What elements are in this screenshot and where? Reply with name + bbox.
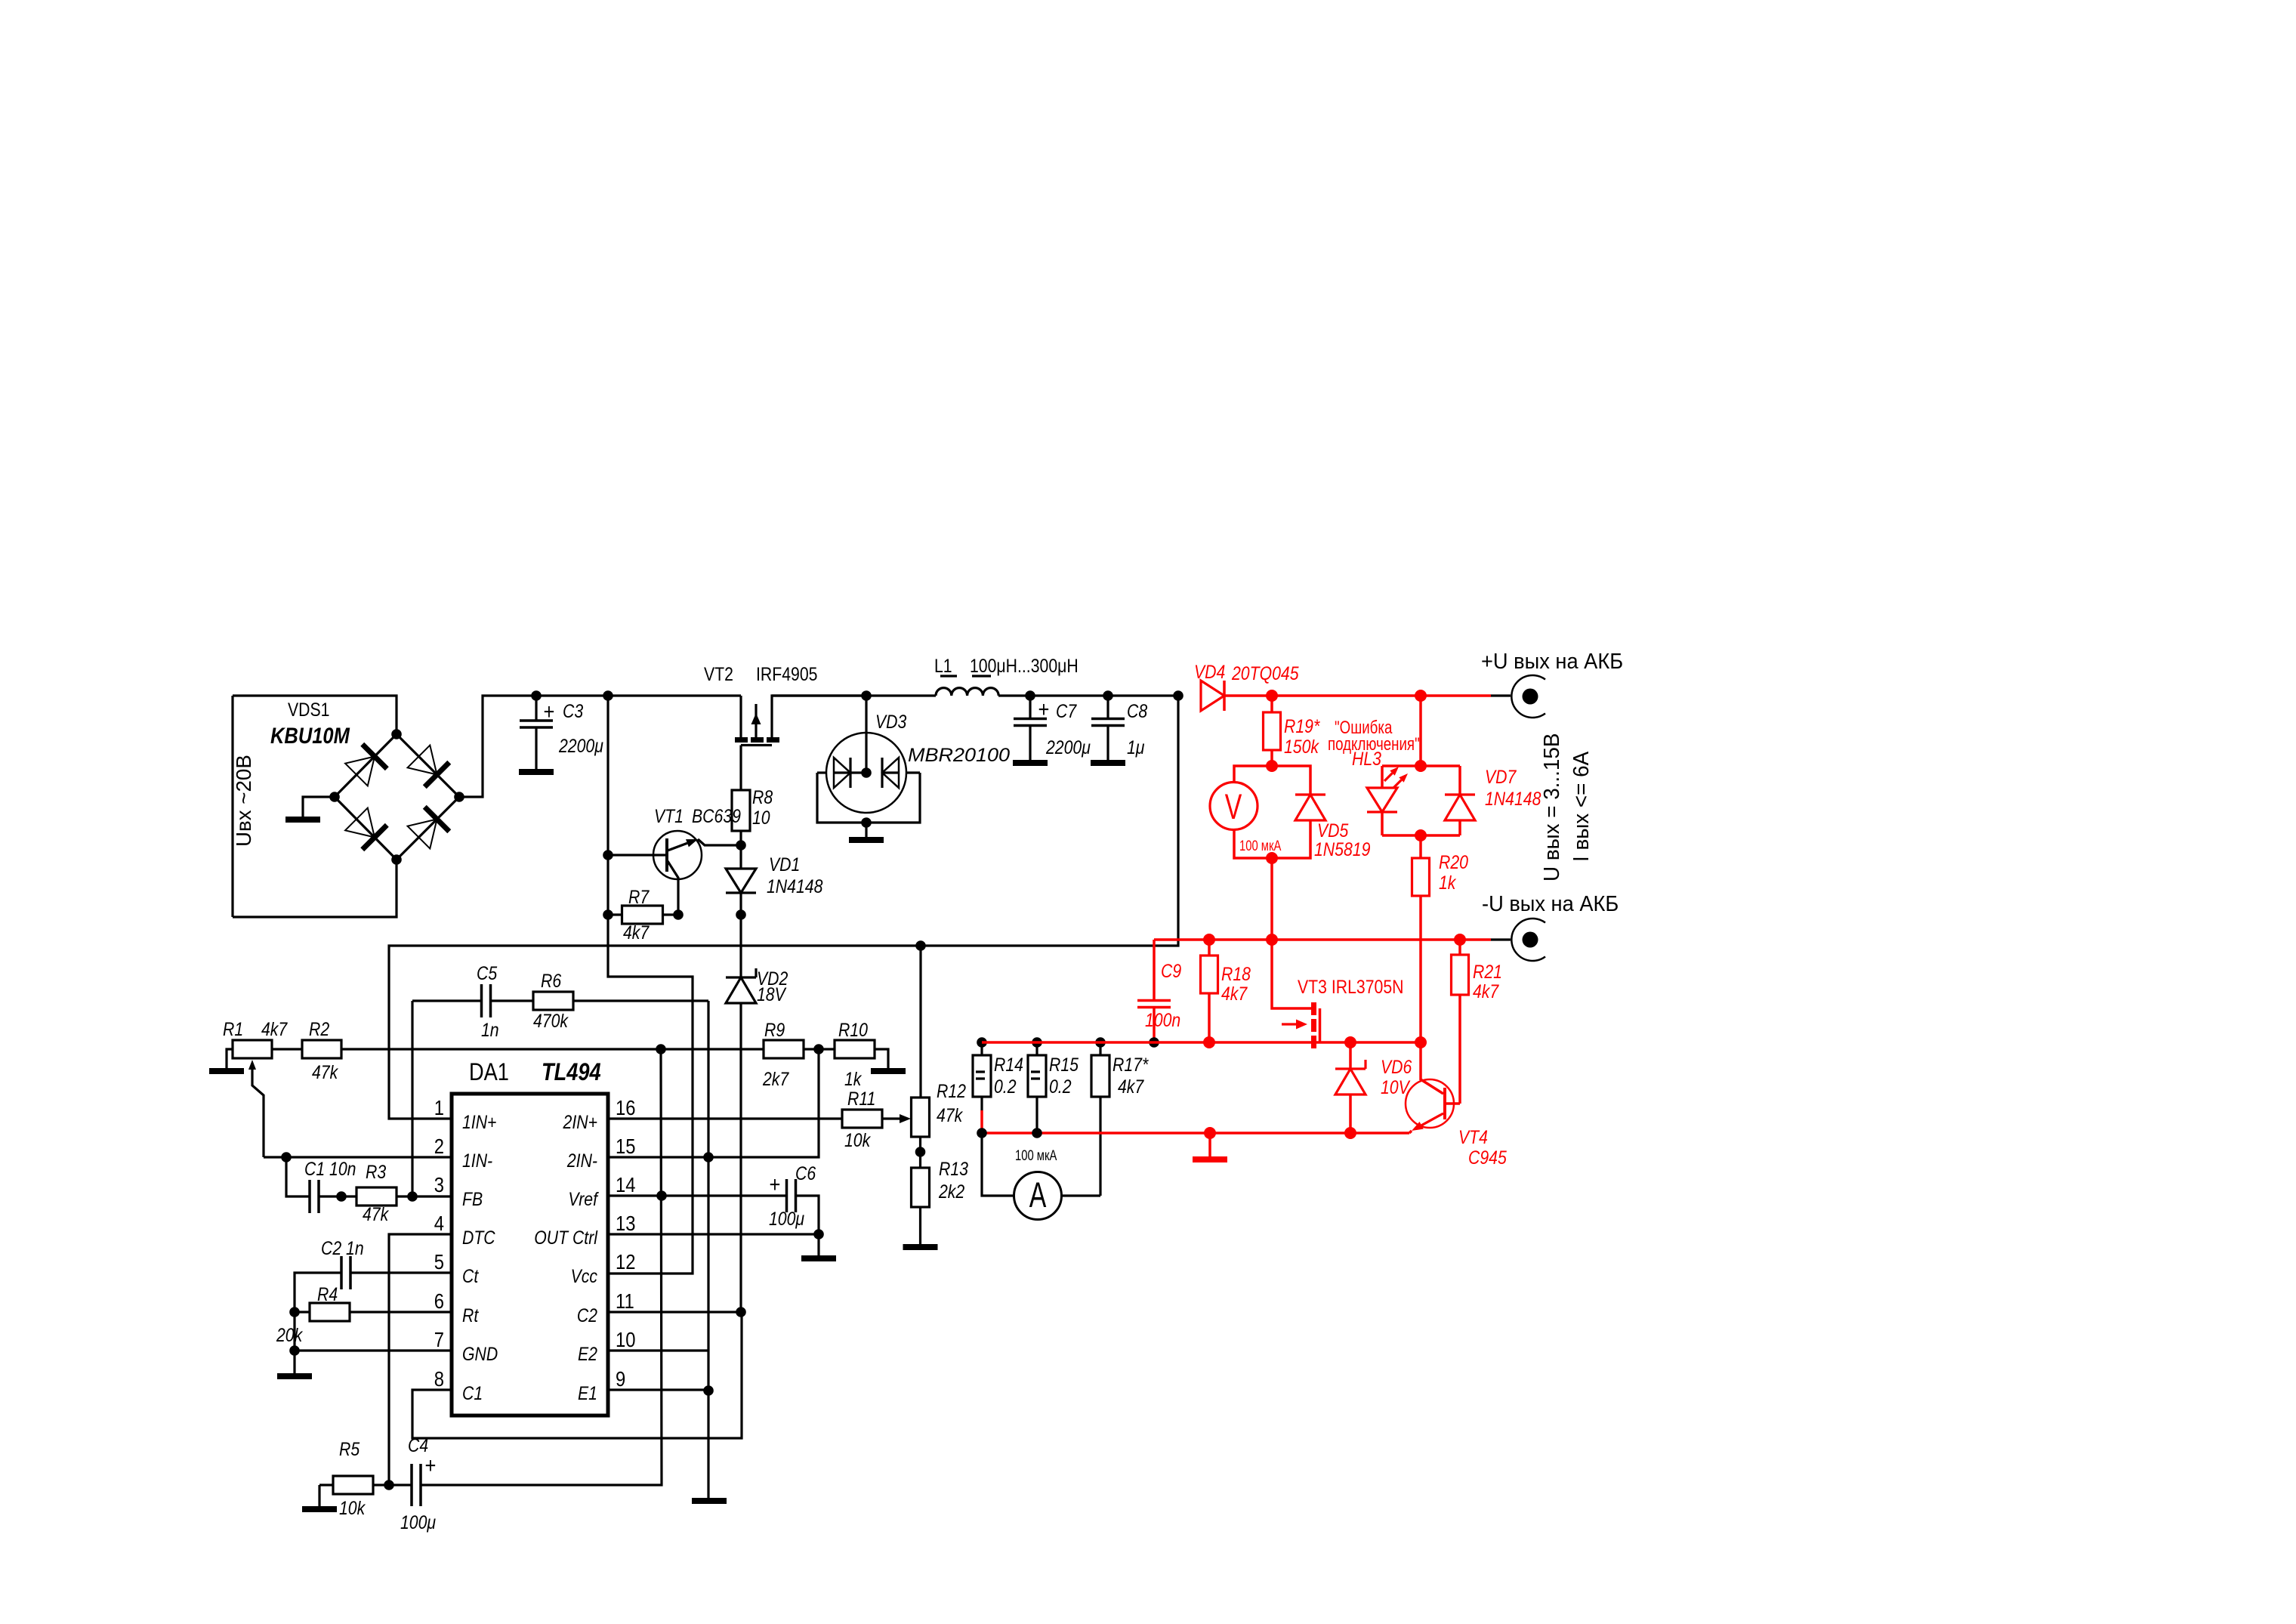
voltmeter V xyxy=(1234,766,1272,783)
label VD6 xyxy=(1381,1056,1412,1077)
label C1 10n xyxy=(304,1158,356,1179)
svg-text:4k7: 4k7 xyxy=(1118,1076,1144,1097)
svg-text:47k: 47k xyxy=(937,1104,964,1125)
transistor VT1 BC639 xyxy=(653,831,702,879)
ground R1 xyxy=(209,1068,244,1074)
svg-text:2k7: 2k7 xyxy=(762,1068,789,1089)
label R21 xyxy=(1473,961,1502,982)
label R9 xyxy=(764,1019,785,1040)
svg-text:KBU10M: KBU10M xyxy=(270,723,350,748)
svg-text:IRF4905: IRF4905 xyxy=(756,663,817,684)
label R8 value 10 xyxy=(752,807,770,828)
wire C2R4 to GND pin xyxy=(293,1312,295,1373)
svg-text:R7: R7 xyxy=(628,886,650,907)
svg-text:16: 16 xyxy=(616,1095,635,1119)
label R7 value 4k7 xyxy=(623,922,650,943)
wire raw supply to Vcc xyxy=(608,696,693,1274)
wire pin13 row xyxy=(608,1234,819,1255)
label C8 value 1μ xyxy=(1127,736,1145,758)
svg-text:E1: E1 xyxy=(578,1382,597,1403)
wire DTC to C4 xyxy=(389,1234,452,1485)
label R4 value 20k xyxy=(276,1324,303,1345)
label R15 xyxy=(1049,1054,1079,1075)
label C4 xyxy=(408,1434,428,1456)
label VD4 value 20TQ045 xyxy=(1231,662,1299,684)
svg-text:R5: R5 xyxy=(339,1438,360,1459)
bridge rectifier VDS1 KBU10M xyxy=(335,734,459,860)
svg-text:R10: R10 xyxy=(838,1019,868,1040)
svg-text:4k7: 4k7 xyxy=(623,922,650,943)
svg-text:2IN-: 2IN- xyxy=(566,1150,597,1171)
svg-text:100n: 100n xyxy=(1145,1009,1180,1030)
svg-text:6: 6 xyxy=(434,1289,444,1313)
svg-text:Rt: Rt xyxy=(462,1304,480,1326)
svg-text:FB: FB xyxy=(462,1188,483,1209)
svg-text:+: + xyxy=(425,1453,437,1477)
capacitor C9 xyxy=(1153,940,1156,1001)
svg-text:47k: 47k xyxy=(363,1203,390,1224)
resistor R15 xyxy=(1035,1042,1038,1055)
svg-text:V: V xyxy=(1225,787,1242,827)
svg-text:1k: 1k xyxy=(844,1068,863,1089)
svg-text:C1 10n: C1 10n xyxy=(304,1158,356,1179)
svg-text:VT3 IRL3705N: VT3 IRL3705N xyxy=(1298,976,1403,997)
svg-text:C3: C3 xyxy=(563,700,583,721)
wire pin9 E1 row xyxy=(608,1388,708,1391)
svg-text:C2: C2 xyxy=(577,1304,597,1326)
label C4 value 100μ xyxy=(400,1511,436,1533)
label C5 value 1n xyxy=(481,1019,499,1040)
svg-text:13: 13 xyxy=(616,1211,635,1235)
svg-text:R12: R12 xyxy=(937,1080,966,1101)
wire pin11 C2 row xyxy=(608,1311,742,1313)
label U вых = 3...15В (rotated) xyxy=(1539,733,1564,881)
label VT4 xyxy=(1458,1126,1488,1147)
svg-text:2200μ: 2200μ xyxy=(1045,736,1091,758)
svg-text:3: 3 xyxy=(434,1172,444,1196)
svg-text:1IN+: 1IN+ xyxy=(462,1111,496,1132)
wire pin15 row xyxy=(608,1049,819,1157)
ground R13 xyxy=(903,1244,938,1250)
svg-text:150k: 150k xyxy=(1284,736,1319,757)
label BC639 xyxy=(692,805,741,826)
IC DA1 TL494 box xyxy=(452,1094,608,1416)
svg-text:VT1: VT1 xyxy=(654,805,684,826)
capacitor C6 xyxy=(787,1179,796,1212)
svg-text:100μ: 100μ xyxy=(769,1208,804,1229)
resistor R4 xyxy=(295,1311,310,1313)
resistor R10 xyxy=(835,1040,875,1058)
label R6 xyxy=(541,970,561,991)
wire pin2 row xyxy=(264,1156,452,1158)
svg-text:2IN+: 2IN+ xyxy=(563,1111,597,1132)
label R7 xyxy=(628,886,650,907)
label ammeter 100 мкА xyxy=(1015,1147,1057,1163)
label C2 1n xyxy=(321,1237,364,1258)
label R17* xyxy=(1113,1054,1149,1075)
resistor R19 xyxy=(1270,696,1273,712)
svg-text:1n: 1n xyxy=(481,1019,499,1040)
svg-text:15: 15 xyxy=(616,1134,635,1158)
resistor R11 xyxy=(608,1117,842,1119)
wire bottom AC rail xyxy=(233,860,397,917)
label R13 xyxy=(939,1158,968,1179)
label R3 value 47k xyxy=(363,1203,390,1224)
svg-text:1k: 1k xyxy=(1439,872,1457,893)
svg-text:4: 4 xyxy=(434,1211,444,1235)
potentiometer R12 xyxy=(919,946,921,1098)
svg-text:100μH...300μH: 100μH...300μH xyxy=(970,655,1079,676)
label DA1 xyxy=(469,1059,509,1086)
label C3 value 2200μ xyxy=(558,735,603,756)
label C7 value 2200μ xyxy=(1045,736,1091,758)
svg-text:U вых = 3...15В: U вых = 3...15В xyxy=(1539,733,1564,881)
wire bridge plus to rail xyxy=(459,696,741,797)
svg-text:0.2: 0.2 xyxy=(1049,1076,1072,1097)
label VT3 IRL3705N xyxy=(1298,976,1403,997)
svg-text:100 мкА: 100 мкА xyxy=(1239,838,1282,854)
ground R10 xyxy=(871,1068,906,1074)
label VD4 xyxy=(1194,661,1225,682)
resistor R18 xyxy=(1208,940,1211,956)
svg-text:VD6: VD6 xyxy=(1381,1056,1412,1077)
label IRF4905 xyxy=(756,663,817,684)
label VD5 xyxy=(1317,820,1348,841)
label VD1 xyxy=(769,854,800,875)
wire feedback bus xyxy=(389,696,1178,1119)
label VD2 value 18V xyxy=(757,983,787,1005)
wire pin8 C1 to outputs E xyxy=(412,1312,742,1438)
diode VD3 MBR20100 xyxy=(865,696,867,773)
svg-text:R6: R6 xyxy=(541,970,561,991)
label C6 + xyxy=(770,1172,781,1196)
label R9 value 2k7 xyxy=(762,1068,789,1089)
label R18 xyxy=(1221,963,1251,984)
svg-text:Ct: Ct xyxy=(462,1265,480,1286)
ground GND pin7 xyxy=(277,1373,312,1379)
wire Vref to R2 node and C4 xyxy=(421,1049,662,1485)
svg-text:C6: C6 xyxy=(795,1162,816,1184)
label R4 xyxy=(317,1283,338,1304)
label VD1 value 1N4148 xyxy=(767,875,822,897)
capacitor C2 xyxy=(350,1271,452,1274)
capacitor C5 xyxy=(412,999,483,1002)
svg-text:VD5: VD5 xyxy=(1317,820,1348,841)
ground R5 xyxy=(302,1506,337,1512)
label C8 xyxy=(1127,700,1147,721)
svg-text:4k7: 4k7 xyxy=(1221,983,1248,1004)
svg-text:20TQ045: 20TQ045 xyxy=(1231,662,1299,684)
label VD7 xyxy=(1485,766,1517,787)
potentiometer R1 xyxy=(233,1040,272,1058)
svg-text:C8: C8 xyxy=(1127,700,1147,721)
capacitor C1 xyxy=(286,1157,310,1196)
svg-text:R4: R4 xyxy=(317,1283,338,1304)
svg-text:VDS1: VDS1 xyxy=(288,699,329,720)
svg-text:VD7: VD7 xyxy=(1485,766,1517,787)
svg-text:Vcc: Vcc xyxy=(571,1265,598,1286)
svg-text:C9: C9 xyxy=(1161,960,1181,981)
label R3 xyxy=(366,1161,386,1182)
diode VD5 xyxy=(1272,766,1310,795)
svg-text:9: 9 xyxy=(616,1366,625,1391)
svg-text:R13: R13 xyxy=(939,1158,968,1179)
label Uвх ~20В (rotated) xyxy=(232,755,255,847)
svg-text:2200μ: 2200μ xyxy=(558,735,603,756)
label voltmeter 100 мкА xyxy=(1239,838,1282,854)
label C9 value 100n xyxy=(1145,1009,1180,1030)
label R20 value 1k xyxy=(1439,872,1457,893)
wire left AC input vertical xyxy=(231,696,233,917)
svg-text:VD4: VD4 xyxy=(1194,661,1225,682)
svg-text:R17*: R17* xyxy=(1113,1054,1149,1075)
label VD7 value 1N4148 xyxy=(1485,788,1541,809)
wire Vref row xyxy=(608,1194,787,1196)
svg-text:R8: R8 xyxy=(752,786,773,807)
label C6 value 100μ xyxy=(769,1208,804,1229)
label R6 value 470k xyxy=(533,1010,569,1031)
svg-text:1N5819: 1N5819 xyxy=(1314,838,1370,860)
svg-text:1μ: 1μ xyxy=(1127,736,1145,758)
label VD3 xyxy=(875,711,906,732)
label R17 value 4k7 xyxy=(1118,1076,1144,1097)
svg-text:VD3: VD3 xyxy=(875,711,906,732)
svg-text:470k: 470k xyxy=(533,1010,569,1031)
svg-text:R15: R15 xyxy=(1049,1054,1079,1075)
label R11 xyxy=(847,1088,875,1109)
ground E1/E2 xyxy=(692,1498,727,1504)
svg-text:4k7: 4k7 xyxy=(1473,980,1499,1002)
resistor R13 xyxy=(912,1168,930,1207)
label R13 value 2k2 xyxy=(938,1181,964,1202)
svg-text:5: 5 xyxy=(434,1249,444,1274)
capacitor C4 xyxy=(389,1484,412,1486)
terminal -U output xyxy=(1491,938,1511,940)
wire bridge minus stub xyxy=(303,797,335,817)
svg-text:R2: R2 xyxy=(309,1018,329,1039)
terminal +U output xyxy=(1491,694,1511,696)
diode VD7 xyxy=(1458,766,1461,795)
LED HL3 and VD7 box xyxy=(1419,696,1422,766)
svg-text:C2 1n: C2 1n xyxy=(321,1237,364,1258)
svg-text:1: 1 xyxy=(434,1095,444,1119)
wire -U row xyxy=(1154,938,1491,941)
svg-text:R14: R14 xyxy=(994,1054,1023,1075)
svg-text:MBR20100: MBR20100 xyxy=(908,744,1011,766)
svg-text:C7: C7 xyxy=(1056,700,1077,721)
svg-text:8: 8 xyxy=(434,1366,444,1391)
wire V node to -U row xyxy=(1270,858,1273,940)
label R1 xyxy=(223,1018,243,1039)
svg-text:VD1: VD1 xyxy=(769,854,800,875)
label R14 value 0.2 xyxy=(994,1076,1017,1097)
svg-text:OUT Ctrl: OUT Ctrl xyxy=(534,1227,598,1248)
label VT2 xyxy=(704,663,733,684)
svg-text:1N4148: 1N4148 xyxy=(1485,788,1541,809)
wire R6 corner to pin15/E1/gnd xyxy=(707,1001,709,1498)
label R21 value 4k7 xyxy=(1473,980,1499,1002)
label C3 xyxy=(563,700,583,721)
label I вых <= 6А (rotated) xyxy=(1569,752,1594,862)
wire emitter row xyxy=(982,1132,1409,1135)
resistor R6 xyxy=(489,999,533,1002)
resistor R3 xyxy=(341,1195,356,1197)
svg-text:+U вых на АКБ: +U вых на АКБ xyxy=(1481,649,1623,673)
svg-text:C945: C945 xyxy=(1468,1147,1507,1168)
wire pin10 E2 row xyxy=(608,1349,708,1351)
label VT4 value C945 xyxy=(1468,1147,1507,1168)
label R2 value 47k xyxy=(312,1061,339,1082)
wire internal ground row xyxy=(982,1041,1421,1044)
label R12 xyxy=(937,1080,966,1101)
resistor R8 xyxy=(739,746,742,791)
svg-text:C5: C5 xyxy=(477,962,497,983)
label VD5 value 1N5819 xyxy=(1314,838,1370,860)
diode VD1 xyxy=(726,869,756,893)
label VT1 xyxy=(654,805,684,826)
LED HL3 xyxy=(1381,766,1384,788)
label R14 xyxy=(994,1054,1023,1075)
svg-text:0.2: 0.2 xyxy=(994,1076,1017,1097)
svg-text:4k7: 4k7 xyxy=(261,1018,288,1039)
label +U вых на АКБ xyxy=(1481,649,1623,673)
resistor R21 xyxy=(1458,940,1461,955)
transistor VT3 IRL3705N xyxy=(1272,940,1311,1008)
svg-text:A: A xyxy=(1029,1175,1047,1215)
svg-text:L1: L1 xyxy=(934,655,952,676)
label R15 value 0.2 xyxy=(1049,1076,1072,1097)
svg-text:GND: GND xyxy=(462,1343,498,1364)
label MBR20100 xyxy=(908,744,1011,766)
svg-text:2k2: 2k2 xyxy=(938,1181,964,1202)
svg-text:R20: R20 xyxy=(1439,851,1468,872)
svg-text:11: 11 xyxy=(616,1289,634,1313)
zener diode VD6 xyxy=(1349,1042,1352,1069)
svg-text:VT2: VT2 xyxy=(704,663,733,684)
svg-text:Uвх ~20В: Uвх ~20В xyxy=(232,755,255,847)
capacitor C8 xyxy=(1106,696,1109,718)
svg-text:+: + xyxy=(770,1172,781,1196)
svg-text:10k: 10k xyxy=(844,1129,872,1150)
svg-text:VT4: VT4 xyxy=(1458,1126,1488,1147)
resistor R17 xyxy=(1099,1042,1101,1055)
svg-text:R1: R1 xyxy=(223,1018,243,1039)
label -U вых на АКБ xyxy=(1482,891,1619,915)
IC DA1 pin labels xyxy=(462,1111,496,1132)
svg-text:100 мкА: 100 мкА xyxy=(1015,1147,1057,1163)
diode VD4 20TQ045 xyxy=(1201,681,1224,711)
svg-text:20k: 20k xyxy=(276,1324,303,1345)
label C7 + xyxy=(1038,696,1050,721)
capacitor C7 xyxy=(1029,696,1031,718)
ground OUT Ctrl/C6 xyxy=(801,1255,836,1261)
svg-text:14: 14 xyxy=(616,1172,635,1196)
svg-text:100μ: 100μ xyxy=(400,1511,436,1533)
resistor R14 xyxy=(980,1042,983,1055)
svg-text:10: 10 xyxy=(616,1327,635,1351)
label R8 xyxy=(752,786,773,807)
label R10 xyxy=(838,1019,868,1040)
svg-text:1N4148: 1N4148 xyxy=(767,875,822,897)
label R5 value 10k xyxy=(339,1497,366,1518)
resistor R7 xyxy=(608,913,622,915)
transistor VT2 IRF4905 xyxy=(739,696,742,737)
svg-text:DA1: DA1 xyxy=(469,1059,509,1086)
label HL3 xyxy=(1352,748,1381,769)
svg-text:+: + xyxy=(1038,696,1050,721)
svg-text:BC639: BC639 xyxy=(692,805,741,826)
label C9 xyxy=(1161,960,1181,981)
svg-text:10k: 10k xyxy=(339,1497,366,1518)
svg-text:10: 10 xyxy=(752,807,770,828)
label KBU10M xyxy=(270,723,350,748)
label R11 value 10k xyxy=(844,1129,872,1150)
label R19* xyxy=(1284,715,1320,736)
svg-text:C1: C1 xyxy=(462,1382,483,1403)
svg-text:2: 2 xyxy=(434,1134,444,1158)
label VDS1 xyxy=(288,699,329,720)
label C5 xyxy=(477,962,497,983)
svg-text:R3: R3 xyxy=(366,1161,386,1182)
wire rail to L1 xyxy=(772,694,936,696)
resistor R5 xyxy=(319,1484,333,1486)
wire L1 to VD4 node xyxy=(998,694,1180,696)
label L1 xyxy=(934,655,952,676)
svg-text:+: + xyxy=(544,699,555,724)
svg-text:E2: E2 xyxy=(578,1343,597,1364)
svg-text:7: 7 xyxy=(434,1327,444,1351)
capacitor C3 xyxy=(535,696,537,721)
label L1 value 100μH...300μH xyxy=(970,655,1079,676)
wire top-left +20V rail xyxy=(233,696,397,734)
label C3 + xyxy=(544,699,555,724)
label R12 value 47k xyxy=(937,1104,964,1125)
ground bridge minus xyxy=(285,817,320,823)
label R2 xyxy=(309,1018,329,1039)
label Ошибка xyxy=(1335,718,1392,738)
resistor R9 xyxy=(764,1040,804,1058)
label R10 value 1k xyxy=(844,1068,863,1089)
label C4 + xyxy=(425,1453,437,1477)
label VD2 xyxy=(757,968,788,989)
svg-text:18V: 18V xyxy=(757,983,787,1005)
label R18 value 4k7 xyxy=(1221,983,1248,1004)
svg-text:-U вых на АКБ: -U вых на АКБ xyxy=(1482,891,1619,915)
svg-text:Vref: Vref xyxy=(568,1188,599,1209)
svg-text:R18: R18 xyxy=(1221,963,1251,984)
ammeter A 100uA xyxy=(982,1133,1014,1196)
label C7 xyxy=(1056,700,1077,721)
label R1 value 4k7 xyxy=(261,1018,288,1039)
label R19 value 150k xyxy=(1284,736,1319,757)
svg-text:R9: R9 xyxy=(764,1019,785,1040)
svg-text:1IN-: 1IN- xyxy=(462,1150,492,1171)
zener diode VD2 xyxy=(739,915,742,977)
label VD6 value 10V xyxy=(1381,1076,1411,1098)
inductor L1 xyxy=(936,688,998,696)
ground internal (red) xyxy=(1193,1156,1227,1162)
svg-text:R11: R11 xyxy=(847,1088,875,1109)
label R20 xyxy=(1439,851,1468,872)
label TL494 xyxy=(542,1059,601,1086)
svg-text:47k: 47k xyxy=(312,1061,339,1082)
svg-text:R19*: R19* xyxy=(1284,715,1320,736)
label C6 xyxy=(795,1162,816,1184)
svg-text:I вых <= 6А: I вых <= 6А xyxy=(1569,752,1594,862)
label подключения xyxy=(1328,734,1420,755)
svg-text:R21: R21 xyxy=(1473,961,1502,982)
svg-text:12: 12 xyxy=(616,1249,635,1274)
